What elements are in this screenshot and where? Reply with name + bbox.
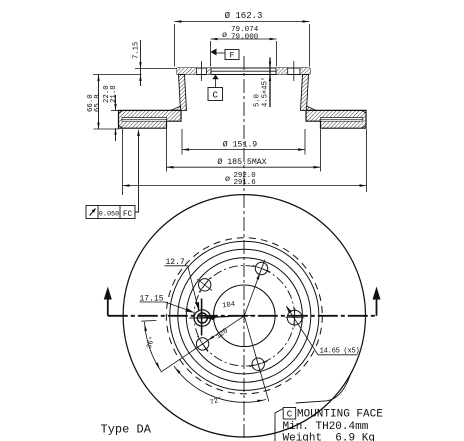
bolt hole 1 <box>285 308 304 327</box>
left wall base flare <box>171 106 181 110</box>
vertical centerline <box>243 56 245 441</box>
svg-text:Min. TH20.4mm: Min. TH20.4mm <box>283 421 369 433</box>
ring right edge chamfers <box>362 110 367 128</box>
bolt hole C in plate (section) <box>197 61 207 81</box>
circle braking band inner <box>178 249 311 382</box>
hub bore circle <box>214 285 276 347</box>
hat right wall <box>301 75 309 111</box>
svg-text:21.8: 21.8 <box>110 85 118 103</box>
mounting face callout <box>275 373 383 441</box>
dim dia 162.3 <box>175 11 310 67</box>
dim 66.0/65.8 <box>87 75 120 130</box>
radial stub left <box>141 319 156 322</box>
label Type DA <box>101 423 152 437</box>
svg-text:7.15: 7.15 <box>133 42 141 59</box>
label 14.65 (x5) <box>286 305 360 355</box>
dim dia 185.5MAX <box>167 129 321 172</box>
svg-text:79.000: 79.000 <box>231 34 259 42</box>
dim PCD 120 <box>161 316 245 373</box>
svg-text:Weight 6.9 Kg: Weight 6.9 Kg <box>283 432 375 441</box>
dim dia 151.9 <box>182 129 305 155</box>
dim 36 deg arc <box>145 322 161 371</box>
dim dia 79.074/79.000 <box>211 26 277 67</box>
svg-text:Ø 185.5MAX: Ø 185.5MAX <box>217 157 266 167</box>
svg-text:Ø 162.3: Ø 162.3 <box>225 11 263 21</box>
bolt hole in plate right (section) <box>288 61 300 81</box>
svg-text:5.0: 5.0 <box>254 94 262 107</box>
radial line through lower bolt hole <box>244 316 268 402</box>
datum C box <box>208 75 223 101</box>
svg-text:MOUNTING FACE: MOUNTING FACE <box>297 409 383 421</box>
dashed circle d185.5 <box>166 238 322 394</box>
datum F box <box>211 49 240 61</box>
label 17.15 <box>140 294 195 312</box>
svg-text:F: F <box>230 51 235 60</box>
radial line to top bolt hole <box>244 263 263 316</box>
dim dia 292.0/291.6 <box>123 129 367 195</box>
bolt hole 3 <box>195 336 211 352</box>
dim 72 deg arc <box>174 366 266 407</box>
svg-text:ø: ø <box>225 174 230 184</box>
svg-text:Ø 151.9: Ø 151.9 <box>223 140 257 150</box>
svg-text:FC: FC <box>123 211 133 219</box>
svg-text:291.6: 291.6 <box>234 179 256 187</box>
bolt hole 4 <box>197 277 212 292</box>
ring left edge chamfers <box>119 110 124 128</box>
dim 5.0/4.5x45 chamfer <box>254 58 272 108</box>
hat section top plate <box>177 68 310 75</box>
svg-text:ø: ø <box>222 30 227 40</box>
bolt hole 2 <box>249 355 267 373</box>
dim 7.15 <box>120 40 177 86</box>
bolt circle PCD 120 dashed <box>194 266 295 367</box>
svg-text:C: C <box>287 409 293 420</box>
circle braking band outer <box>170 241 319 390</box>
svg-text:C: C <box>212 91 218 101</box>
friction ring left half <box>119 110 182 128</box>
bolt hole 5 <box>253 260 271 278</box>
friction ring right half <box>306 110 366 128</box>
hat left wall <box>179 75 187 111</box>
set screw hole (12.7/17.15) <box>189 299 215 336</box>
dim dia 104 <box>194 301 255 321</box>
circle hat outline <box>186 258 302 374</box>
dim 22.0/21.8 <box>103 85 119 141</box>
svg-text:Type DA: Type DA <box>101 423 152 437</box>
svg-text:14.65 (x5): 14.65 (x5) <box>320 348 360 356</box>
runout 0.050 FC frame <box>86 129 140 219</box>
disc outer circle <box>123 195 365 437</box>
svg-text:65.8: 65.8 <box>94 94 102 112</box>
right wall base flare <box>307 106 317 110</box>
horizontal centerline + section arrows <box>104 287 381 316</box>
label 12.7 <box>165 258 200 311</box>
svg-text:4.5×45°: 4.5×45° <box>261 77 270 107</box>
svg-text:0.050: 0.050 <box>99 210 119 218</box>
